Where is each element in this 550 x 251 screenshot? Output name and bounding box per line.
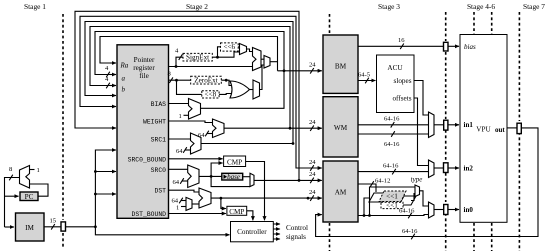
wire: DST row to mux M11: [169, 190, 200, 192]
svg-text:24: 24: [309, 159, 316, 166]
feedback wire rect R1 (outermost): [75, 11, 299, 180]
shifter <<1 dashed box: [381, 202, 403, 210]
feedback wire rect R5 (BIAS pointer): [95, 32, 284, 109]
svg-text:bias: bias: [464, 43, 476, 51]
svg-text:Pointer: Pointer: [134, 56, 155, 64]
wire: bias address to BM with 24-bit slash: [278, 62, 322, 74]
wire: M1 output to mux M2: [247, 49, 253, 52]
barrel shifter parallelogram right: [399, 196, 416, 205]
svg-text:WEIGHT: WEIGHT: [143, 119, 166, 126]
svg-text:64: 64: [172, 198, 179, 205]
stage separator dashed line 5/6: [491, 12, 493, 251]
pipeline register REG4 (bias): [444, 42, 449, 51]
wire: <<6 output to mux M1: [238, 46, 239, 48]
24-bit slash on R2 wire into AM: [309, 159, 316, 171]
wire: SRC0_BOUND row to comparator: [169, 158, 223, 160]
svg-text:64-16: 64-16: [399, 208, 415, 215]
svg-text:Ra: Ra: [120, 62, 129, 70]
mux M15 (in0 select): [429, 202, 435, 218]
wire: M2 output to mux M3: [261, 58, 264, 60]
wire: Ra to SignExt with 4-bit slash: [175, 48, 183, 67]
svg-text:64: 64: [176, 148, 183, 155]
comparator CMP2: [227, 206, 247, 216]
svg-text:SignExt: SignExt: [186, 53, 209, 61]
svg-text:<<1: <<1: [386, 202, 398, 210]
wire: M13 output to in2: [434, 165, 473, 173]
stage separator dashed line 6/7: [518, 12, 520, 251]
wire: base output to mux M9: [243, 176, 250, 178]
svg-text:IM: IM: [25, 224, 34, 232]
feedback wire rect R4: [90, 27, 290, 129]
svg-text:<<8: <<8: [205, 90, 217, 98]
svg-text:64: 64: [173, 179, 180, 186]
svg-text:1: 1: [179, 113, 182, 120]
svg-text:Stage 1: Stage 1: [24, 2, 46, 11]
mux M10 (DST 64/1 select): [186, 197, 192, 210]
pipeline register REG5 (in1): [444, 120, 448, 130]
wire: M15 output to in0: [434, 206, 473, 214]
wire: shifter right output to M14: [411, 194, 415, 201]
svg-text:24: 24: [309, 189, 316, 196]
svg-text:file: file: [139, 72, 149, 80]
wire: M12 output to in1: [434, 121, 473, 129]
wire: OR output to M4: [249, 89, 254, 91]
wire: M4 output up to mux M3 lower input: [260, 65, 265, 90]
wire: WM output 64-16 (b): [358, 131, 429, 148]
controller: [231, 222, 274, 242]
svg-text:BIAS: BIAS: [151, 101, 167, 108]
wire: a output row with 8-bit slash into ZeroExt: [168, 71, 191, 84]
wire: AM output 64-16 to in0 mux: [358, 208, 429, 219]
mux M3 (final pointer-step mux): [264, 56, 270, 69]
stage separator dashed line 3/4: [445, 12, 447, 251]
wire: BIAS row to mux M5: [169, 103, 189, 105]
wire: WM output 64-16 (a): [358, 116, 429, 128]
address calculation unit ACU: [377, 55, 415, 113]
svg-text:15: 15: [50, 218, 57, 225]
svg-text:SRC1: SRC1: [151, 137, 167, 144]
wire: shifter top bypass to M14: [368, 187, 415, 217]
svg-text:in2: in2: [464, 165, 474, 173]
OR gate G1: [230, 81, 250, 98]
wire: VPU output: [507, 127, 517, 129]
wire: base bypass path: [211, 176, 250, 186]
svg-text:16: 16: [398, 37, 405, 44]
wire: instruction to register file write ports and controller: [66, 150, 230, 235]
wire: <<8 output to OR gate: [219, 93, 231, 96]
svg-text:BM: BM: [335, 63, 347, 71]
wire: M14 output to in0 mux: [420, 191, 429, 206]
svg-text:Stage 2: Stage 2: [186, 2, 208, 11]
svg-text:in1: in1: [464, 121, 474, 129]
svg-text:<<6: <<6: [223, 43, 235, 51]
barrel shifter parallelogram left: [369, 193, 388, 202]
PC register: [20, 192, 38, 201]
svg-text:SRC0: SRC0: [151, 167, 167, 174]
svg-text:64-5: 64-5: [358, 72, 371, 79]
mux M11 (DST step mux): [199, 188, 211, 208]
svg-text:CMP: CMP: [227, 159, 242, 167]
pipeline register REG8 (out): [517, 123, 521, 133]
svg-text:DST_BOUND: DST_BOUND: [131, 211, 166, 218]
wire: DST tap to CMP2: [221, 198, 226, 208]
mux M2 (offset select, large): [253, 48, 262, 71]
svg-text:64-16: 64-16: [402, 228, 418, 235]
shifter <<8: [202, 90, 219, 98]
mux M0 (PC select mux, stage 1, faces left): [20, 166, 30, 189]
mux M9 (base select): [250, 173, 254, 186]
svg-text:64-16: 64-16: [384, 116, 400, 123]
svg-text:PC: PC: [25, 193, 34, 201]
wire: 64 constant into M6: [198, 131, 213, 139]
wire: CMP2 output to controller: [247, 211, 253, 221]
zero extender ZeroExt: [191, 76, 222, 84]
svg-text:64-16: 64-16: [383, 163, 399, 170]
wire: M7 output to feedback R3: [201, 142, 294, 145]
type select mux M14: [411, 176, 423, 197]
wire: DST_BOUND row to CMP2: [169, 213, 226, 215]
wire: SRC0 row to mux M8: [169, 168, 188, 170]
svg-text:24: 24: [309, 62, 316, 69]
svg-text:CMP: CMP: [229, 208, 244, 216]
wire: BM output 16-bit bias: [358, 37, 444, 49]
mux M4 (zero-ext path select): [253, 80, 260, 99]
svg-text:offsets: offsets: [392, 95, 411, 103]
svg-text:a: a: [122, 75, 126, 83]
svg-text:Controller: Controller: [237, 228, 267, 236]
wire: out feedback loop to AM with 64-16 slash: [316, 128, 538, 239]
svg-text:Stage 7: Stage 7: [523, 2, 545, 11]
wire: 64 constant into M10: [172, 198, 187, 205]
svg-text:<<1: <<1: [386, 193, 398, 201]
comparator CMP1: [224, 156, 246, 167]
mux M5 (BIAS step mux): [189, 99, 201, 120]
stage separator dashed line 2/3: [329, 14, 331, 251]
stage labels: [24, 2, 545, 11]
wire: AM output 64-16 to in2 mux: [358, 163, 429, 175]
svg-text:24: 24: [309, 119, 316, 126]
wire: 64 constant into M7: [176, 147, 191, 155]
control signal dashed arrows: [273, 224, 308, 241]
svg-text:WM: WM: [334, 124, 348, 132]
wire: M10 output to M11: [192, 203, 199, 205]
svg-text:SRC0_BOUND: SRC0_BOUND: [128, 156, 167, 163]
svg-text:64-16: 64-16: [384, 141, 400, 148]
wire: constant 1 into M5: [179, 113, 189, 120]
mux M12 (in1 select): [429, 112, 435, 138]
feedback wire rect R2: [80, 16, 322, 168]
svg-text:slopes: slopes: [394, 77, 412, 85]
svg-text:in0: in0: [464, 206, 474, 214]
wire: Ra output row: [169, 65, 253, 68]
svg-text:signals: signals: [286, 233, 306, 241]
wire: AM out into shifter left: [363, 198, 369, 217]
pointer register file: [117, 45, 169, 219]
svg-text:b: b: [122, 86, 126, 94]
mux M7 (SRC1 step mux): [191, 133, 202, 154]
svg-text:Stage 4-6: Stage 4-6: [467, 2, 495, 11]
wire: constant 1 into M0: [30, 167, 40, 174]
pipeline register REG0 (IF/ID): [61, 222, 66, 231]
mux M8 (SRC0 step mux): [188, 165, 199, 188]
svg-text:AM: AM: [335, 189, 347, 197]
svg-text:DST: DST: [154, 188, 166, 195]
wire: PC output loop to M0 input: [30, 184, 49, 196]
pipeline register REG6 (in2): [444, 163, 449, 173]
wire: slopes to in1 mux: [414, 81, 429, 116]
shifter <<6: [221, 43, 239, 51]
barrel shifter dashed parallelogram: [379, 191, 406, 202]
svg-text:1: 1: [37, 167, 40, 174]
mux M6 (WEIGHT step mux): [213, 119, 225, 138]
wire: M0 output to PC and IM with 8-bit slash: [5, 166, 20, 227]
base register: [222, 173, 243, 181]
wire: SRC1 row to mux M7: [169, 138, 191, 140]
svg-text:ZeroExt: ZeroExt: [194, 76, 218, 84]
svg-text:register: register: [133, 64, 155, 72]
svg-text:64-12: 64-12: [375, 178, 390, 185]
wire: bias into VPU: [448, 45, 459, 47]
wire: AM output 64-12 to shifter: [358, 178, 390, 193]
mux M13 (in2 select): [429, 160, 435, 178]
svg-text:out: out: [495, 126, 505, 134]
wire: BM to ACU 64-5: [358, 72, 376, 84]
wire: offsets to in2 mux: [414, 98, 429, 166]
svg-text:VPU: VPU: [476, 126, 491, 134]
stage separator dashed line 1/2: [62, 14, 64, 249]
wire: 1 constant into M10: [176, 205, 186, 212]
wire: 64 constant into M8: [173, 178, 188, 186]
memory WM: [323, 97, 358, 157]
wire: CMP1 output to controller: [246, 162, 265, 221]
svg-text:type: type: [411, 176, 423, 184]
svg-text:Control: Control: [286, 224, 308, 232]
svg-text:ACU: ACU: [387, 64, 403, 72]
sign extender SignExt: [183, 53, 212, 61]
stage separator dashed line 4/5: [473, 12, 475, 251]
svg-text:1: 1: [176, 205, 179, 212]
mux M1 (SignExt/<<6 select): [240, 44, 247, 55]
svg-text:Stage 3: Stage 3: [378, 2, 400, 11]
svg-text:24: 24: [309, 171, 316, 178]
wire: M8 output to base and CMP1: [199, 163, 223, 178]
wire: WEIGHT row to mux M6: [169, 121, 213, 123]
feedback wire rect R6 (innermost, Ra chain): [100, 37, 278, 71]
wire: M11 output to AM with 24-bit slash: [211, 189, 322, 201]
wire: M3 output up into feedback rect R6: [270, 61, 278, 63]
wire: a to <<8 branch: [177, 80, 202, 94]
vector processing unit VPU: [460, 35, 507, 223]
memory IM: [16, 213, 45, 241]
pipeline register REG7 (in0): [444, 205, 448, 215]
svg-text:base: base: [227, 173, 240, 181]
memory BM: [323, 35, 358, 93]
wire: ZeroExt output to OR gate: [221, 79, 231, 86]
feedback wire rect R3: [85, 22, 293, 144]
memory AM: [323, 161, 358, 222]
wire: SignExt output: [212, 47, 239, 59]
wire: M9 output to AM port with 24-bit slash: [254, 171, 322, 183]
wire: M6 output to WM with 24-bit slash: [224, 119, 322, 131]
wire: IM output, 15-bit instruction: [44, 218, 61, 230]
